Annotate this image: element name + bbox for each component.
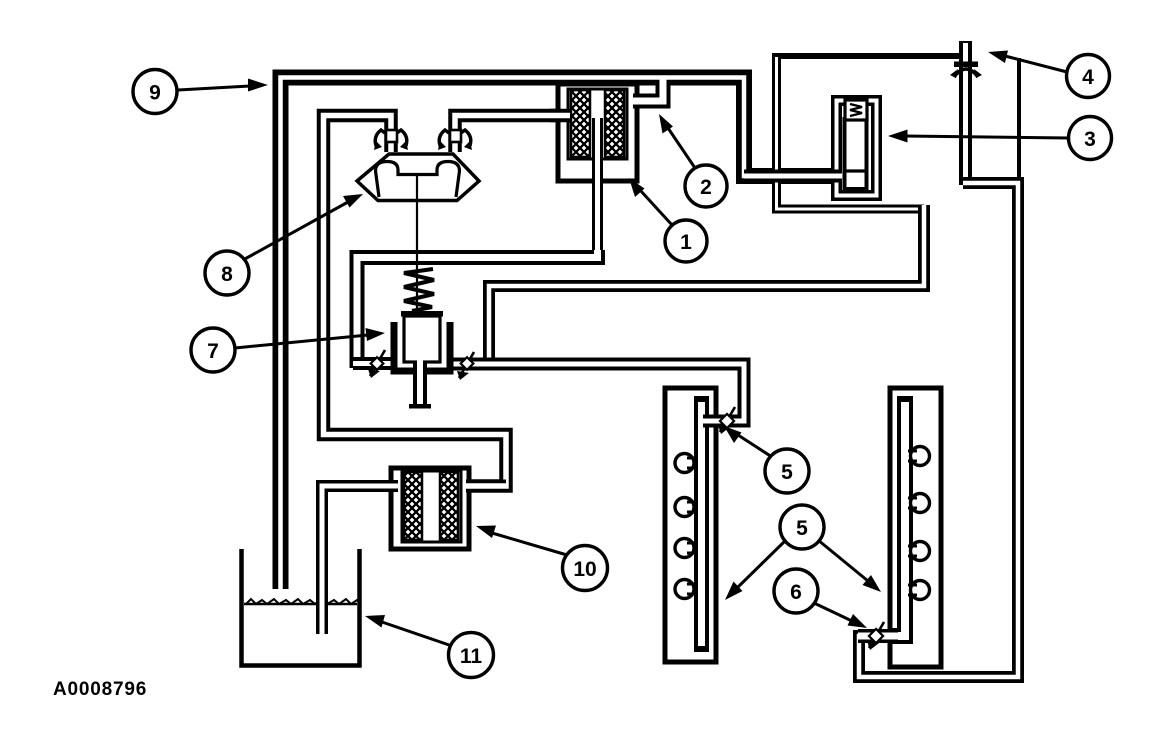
wire: frame drop + mid return run + riser to valve level bbox=[489, 205, 924, 368]
liquid surface bbox=[244, 599, 361, 604]
reservoir 11 bbox=[242, 549, 360, 666]
svg-text:3: 3 bbox=[1084, 128, 1096, 151]
tank1 port symbol bbox=[718, 407, 735, 434]
component 3 (vapor valve) box bbox=[837, 101, 877, 196]
wire: solenoid1 plunger pipe down bbox=[592, 118, 603, 252]
tank 1 (left) bbox=[665, 388, 716, 662]
callout 9 bbox=[133, 70, 268, 114]
wire: reopen solenoid10 ports bbox=[370, 480, 506, 493]
callout 11 bbox=[365, 615, 494, 678]
wire: outer main loop (left vertical + top run + drop to component 3) bbox=[281, 78, 842, 593]
svg-text:9: 9 bbox=[149, 82, 161, 105]
svg-text:4: 4 bbox=[1082, 66, 1094, 89]
svg-text:5: 5 bbox=[781, 461, 793, 484]
svg-text:A0008796: A0008796 bbox=[53, 679, 147, 700]
wire: tank2 bottom port re-open bbox=[858, 629, 898, 643]
callout 7 bbox=[191, 328, 385, 372]
wire: manifold right port run to solenoid 1 bbox=[455, 116, 567, 153]
spring of valve 7 bbox=[404, 269, 434, 311]
callout 3 bbox=[888, 117, 1112, 160]
wire: solenoid1 left port reopen bbox=[550, 109, 570, 123]
svg-text:6: 6 bbox=[790, 581, 802, 604]
solenoid 10 bbox=[391, 468, 469, 549]
tank 2 coils bbox=[908, 447, 930, 600]
component 3 internals bbox=[843, 100, 868, 189]
svg-text:11: 11 bbox=[460, 645, 483, 668]
svg-text:7: 7 bbox=[207, 340, 219, 363]
manifold port symbols bbox=[374, 130, 472, 150]
wire: frame left vertical + bottom run bbox=[777, 53, 925, 209]
wire: right frame single vertical bbox=[1017, 58, 1021, 183]
svg-text:2: 2 bbox=[700, 176, 712, 199]
wire: long run valve7 to tank1 top port bbox=[449, 364, 744, 421]
tank 2 (right) bbox=[890, 388, 941, 667]
wire: tank1 top port bbox=[703, 415, 741, 428]
wire: re-open the entering pipe through box wall bbox=[744, 170, 842, 183]
valve 7 port symbols (diagonal arrows w/ diamond) bbox=[368, 350, 474, 380]
wire: right side long pipe to tank2 bottom port bbox=[859, 183, 1018, 677]
callout 1 bbox=[629, 178, 707, 262]
wire: plunger elbow left + down to valve7 left port bbox=[357, 250, 598, 368]
callout 10 bbox=[476, 526, 608, 591]
callout 4 bbox=[988, 51, 1110, 98]
tank 1 coils bbox=[675, 454, 696, 599]
wire: stub into valve7 left port bbox=[353, 357, 392, 370]
svg-text:8: 8 bbox=[221, 263, 233, 286]
callout 8 bbox=[205, 194, 363, 295]
svg-text:5: 5 bbox=[796, 517, 808, 540]
tank2 port symbol bbox=[867, 622, 884, 650]
callout 2 bbox=[659, 114, 727, 207]
wire: solenoid1 top-right elbow to top run bbox=[633, 79, 663, 101]
valve 7 body bbox=[394, 311, 450, 409]
wire: frame top single line (to check valve 4) bbox=[772, 53, 961, 59]
svg-text:10: 10 bbox=[573, 558, 596, 581]
callout 6 bbox=[774, 569, 867, 628]
check valve 4 symbol bbox=[950, 62, 982, 79]
wire: manifold left port run + long left vertical + run to solenoid10 right port bbox=[324, 116, 507, 487]
solenoid 1 (EVAP purge) bbox=[558, 84, 637, 181]
wire: check valve 4 tube bbox=[959, 41, 972, 185]
intake manifold (8) bbox=[357, 154, 479, 311]
wire: solenoid10 left pipe down into reservoir bbox=[322, 486, 399, 637]
svg-text:1: 1 bbox=[680, 231, 692, 254]
callout 5a bbox=[724, 426, 809, 493]
callout 5b bbox=[725, 505, 881, 600]
